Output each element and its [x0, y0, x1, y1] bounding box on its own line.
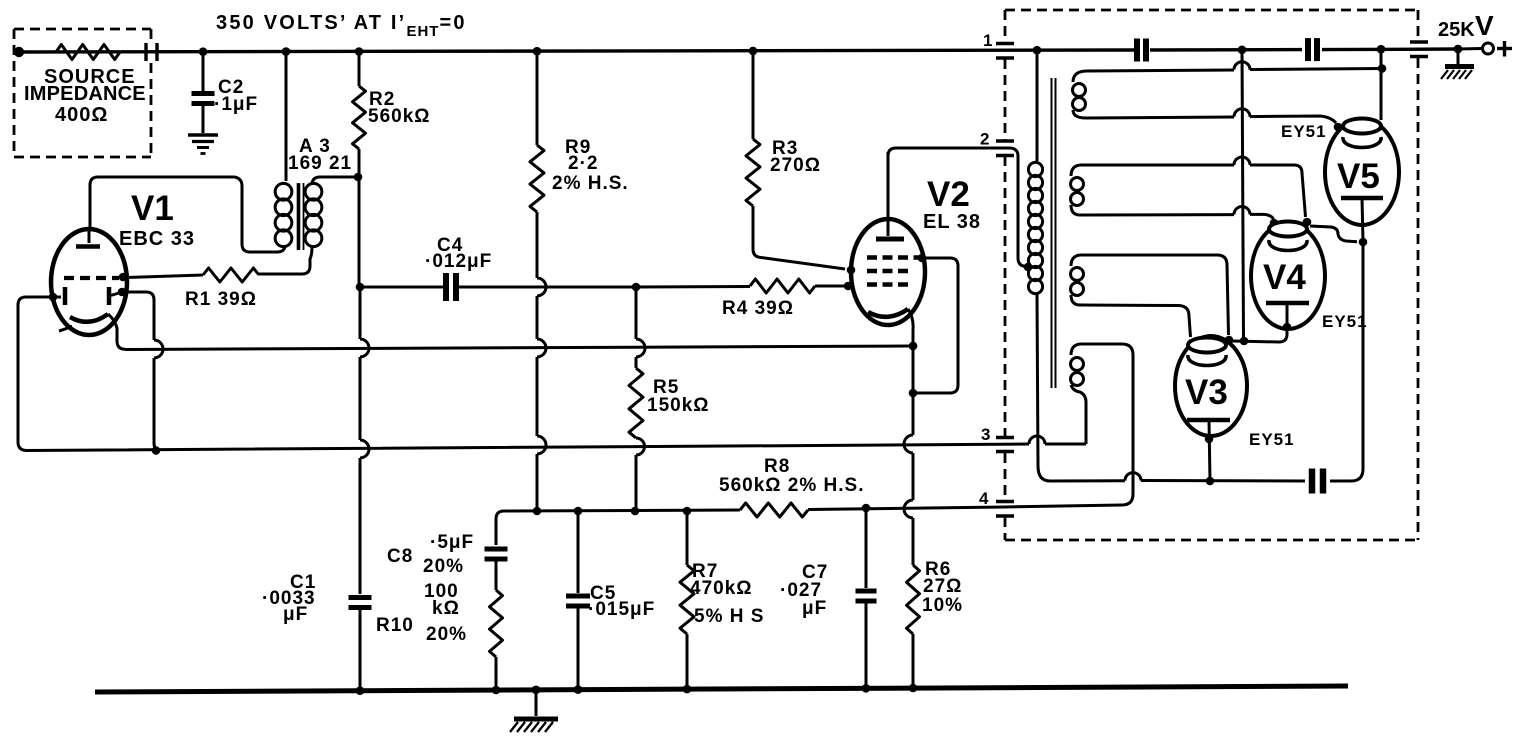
- svg-text:2·2: 2·2: [568, 153, 598, 174]
- svg-text:EL 38: EL 38: [923, 211, 981, 233]
- svg-text:kΩ: kΩ: [432, 598, 460, 619]
- svg-text:169 21: 169 21: [288, 153, 352, 174]
- svg-text:150kΩ: 150kΩ: [647, 395, 710, 416]
- svg-text:EBC 33: EBC 33: [119, 228, 195, 250]
- svg-text:10%: 10%: [922, 595, 963, 616]
- svg-text:V5: V5: [1337, 157, 1380, 196]
- svg-text:3: 3: [981, 425, 991, 444]
- svg-text:·015μF: ·015μF: [588, 599, 655, 620]
- svg-text:400Ω: 400Ω: [55, 104, 108, 126]
- svg-text:·012μF: ·012μF: [425, 251, 492, 272]
- svg-text:25K: 25K: [1438, 19, 1475, 41]
- svg-text:V2: V2: [927, 175, 970, 214]
- svg-text:27Ω: 27Ω: [923, 576, 962, 597]
- svg-text:R10: R10: [376, 615, 414, 636]
- svg-text:μF: μF: [283, 604, 308, 625]
- svg-text:350 VOLTS’ AT I’EHT=0: 350 VOLTS’ AT I’EHT=0: [216, 12, 467, 40]
- svg-text:R4 39Ω: R4 39Ω: [722, 298, 794, 319]
- svg-text:560kΩ 2% H.S.: 560kΩ 2% H.S.: [719, 475, 864, 496]
- svg-text:1: 1: [983, 31, 993, 50]
- svg-text:V4: V4: [1263, 258, 1306, 297]
- svg-text:V: V: [1475, 10, 1494, 41]
- svg-text:4: 4: [979, 489, 989, 508]
- svg-text:2: 2: [980, 130, 990, 149]
- svg-text:270Ω: 270Ω: [770, 155, 821, 176]
- svg-text:μF: μF: [802, 598, 827, 619]
- svg-text:2% H.S.: 2% H.S.: [552, 173, 629, 194]
- svg-text:EY51: EY51: [1322, 312, 1368, 331]
- svg-text:C8: C8: [387, 546, 413, 567]
- svg-text:V3: V3: [1185, 373, 1228, 412]
- svg-text:470kΩ: 470kΩ: [690, 578, 753, 599]
- svg-text:V1: V1: [131, 189, 174, 228]
- svg-text:20%: 20%: [426, 624, 467, 645]
- svg-text:IMPEDANCE: IMPEDANCE: [24, 83, 146, 105]
- svg-text:·1μF: ·1μF: [214, 94, 258, 115]
- svg-text:EY51: EY51: [1249, 430, 1295, 449]
- svg-text:·5μF: ·5μF: [430, 532, 474, 553]
- svg-text:EY51: EY51: [1281, 122, 1327, 141]
- svg-text:R1 39Ω: R1 39Ω: [185, 289, 257, 310]
- svg-text:R8: R8: [764, 456, 790, 477]
- svg-text:5% H S: 5% H S: [694, 606, 764, 627]
- svg-text:560kΩ: 560kΩ: [368, 106, 431, 127]
- svg-text:20%: 20%: [423, 556, 464, 577]
